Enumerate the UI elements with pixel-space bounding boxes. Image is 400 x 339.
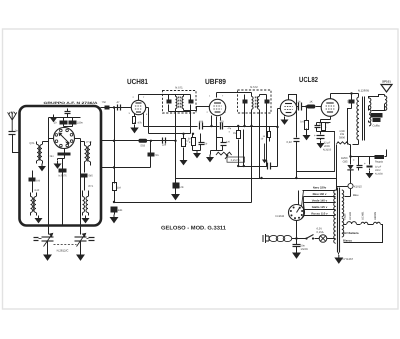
mains switch [305,235,319,240]
svg-text:57K: 57K [179,186,184,189]
label QT1 [30,142,36,145]
wire speaker bottom [369,105,385,111]
UBF89 pin numbers [207,95,227,115]
wire right column [83,166,89,216]
volume potentiometer [216,152,232,159]
wire box to UCH81 grid [101,106,132,108]
ground arrow antenna coil [39,164,45,171]
wire screen bus segs [203,123,272,128]
capacitor 404 [199,121,204,130]
padder coil left a [31,197,33,213]
tuning capacitor section 1 [34,234,54,247]
ground arrow 43K [111,215,118,223]
svg-text:C85: C85 [343,160,348,163]
svg-text:1K: 1K [309,101,312,104]
IF1 core [179,97,181,109]
wire triode grid [278,109,281,167]
osc trim coil a [83,197,85,213]
IF1 primary capacitor [167,95,172,112]
IF2 primary capacitor [243,95,248,113]
wire 104 to grid col [267,166,278,168]
wire cath net [317,123,331,135]
wire pentode plate [331,92,359,98]
wire cath bus right [297,132,335,172]
svg-text:Rosso 110 v: Rosso 110 v [311,211,328,215]
svg-text:UCL82: UCL82 [349,211,352,220]
svg-text:+: + [364,162,366,166]
label N.2812/C [57,249,69,253]
wire trimmer net [49,115,81,127]
primary taps with voltage labels [304,186,336,216]
wire mid column [58,153,65,226]
wire HV secondary out [345,196,351,198]
label N.572 [250,85,258,89]
RF unit box [20,106,102,226]
svg-text:104: 104 [264,160,269,163]
svg-text:750: 750 [102,101,107,104]
wire det gnd row [193,150,201,152]
ground arrow 2,2K [181,158,187,165]
power transformer core [338,188,340,253]
resistor 1M agc [113,183,121,203]
capacitor 5n tone [347,94,355,109]
ground arrow tuning 1 [44,252,51,260]
label G12 [35,189,40,192]
wire column x48 [48,118,50,226]
selector tap fan [302,191,305,219]
resistor 50K [188,133,196,151]
ground arrow right lower coil [83,216,89,223]
output transformer core [363,97,365,141]
svg-text:47k: 47k [138,122,143,125]
headphone jack Cuffia [371,113,383,122]
wire filament seg2 [368,224,374,226]
svg-text:100: 100 [36,180,41,183]
wire IF2 prim drop [244,113,246,127]
wiper arrow det [262,144,267,164]
svg-text:Bleu: Bleu [353,194,359,197]
antenna coil core [39,146,41,161]
wire filament return [344,225,383,243]
label N.1043 [276,215,285,218]
svg-text:1500V: 1500V [301,248,309,251]
svg-text:120: 120 [226,141,231,144]
svg-text:N.126/95: N.126/95 [358,89,370,93]
wire osc coil top [81,142,91,146]
svg-text:N.2812/C: N.2812/C [57,249,69,253]
wire selector top [298,191,300,205]
capacitor 47 grid [117,101,121,111]
label 47u 4 [228,127,232,134]
wire IF1 sec drop [190,112,192,134]
capacitor 5n af [148,140,159,168]
capacitor trimmer 10 [54,121,68,125]
resistor 503 [139,139,148,148]
svg-text:PY1: PY1 [89,185,94,188]
filter capacitor 32uF second [364,157,373,171]
triode cathode resistor 18 [263,126,279,142]
oscillator coil b [88,146,90,162]
wire OT sec tap [368,121,370,123]
svg-text:Bianco: Bianco [343,239,352,242]
oscillator coil core [87,147,89,162]
IF1 top wires [139,94,191,96]
mechanical link dashed [54,244,77,246]
wire y133 screen [146,108,191,134]
svg-text:1M: 1M [233,132,236,135]
IF2 secondary capacitor [265,95,270,113]
ground arrow tuning 2 [77,252,84,260]
UCH81 pin numbers [129,96,149,116]
svg-text:UBF89: UBF89 [205,77,226,86]
wire filament seg1 [357,224,361,226]
wire 22k corner [183,154,185,158]
tube UBF89 [209,99,225,115]
speaker voice coil [385,95,387,111]
svg-text:0,25 P.F.: 0,25 P.F. [231,159,241,162]
capacitor 24 coupling [297,101,307,111]
svg-text:UCL82: UCL82 [299,75,318,84]
svg-text:404: 404 [199,121,204,124]
UCH81 pin stubs [139,95,144,127]
wire 32uF branch [318,139,324,148]
heater UCH81 [361,211,368,224]
wire det out y165 [237,165,267,167]
label 32uF 200V N.3156 right [375,166,383,176]
ground arrow mains cap [293,250,300,258]
wire bus y177 [176,177,337,179]
heater UBF89 [374,211,381,224]
capacitor 100 [29,178,41,183]
rectifier E250 C85 [341,145,353,184]
IF2 top wires [260,94,267,96]
ground arrow 0,47 [304,133,310,140]
mains cord twisted [269,235,292,241]
wire gang left drop [48,226,50,235]
label GRUPPO A.F. N 2736/A [44,101,99,105]
resistor 1,5K 1W [337,130,351,145]
svg-text:K1015: K1015 [354,186,362,189]
resistor 47k cathode [133,114,143,125]
resistor Regola [375,150,387,160]
svg-text:UBF89: UBF89 [374,211,377,220]
tube UCH81 [131,100,145,114]
mains plug [263,234,269,243]
power transformer primary winding [334,190,336,243]
wire cap100 col [32,171,34,187]
ground arrow filter [367,171,373,178]
label Bianco [343,239,352,242]
ground arrow det 50K [194,151,200,158]
wire y167 agc [101,167,151,169]
IF transformer N.572 box [238,90,272,113]
pilot lamp 6,3V 0,15A [317,228,327,243]
antenna coil primary [37,145,39,161]
IF1 bottom wires [169,109,191,112]
wire grid agc drop [113,108,115,184]
svg-text:545: 545 [89,175,94,178]
label Grigio [344,213,347,220]
svg-text:N.1043: N.1043 [276,215,285,218]
svg-text:UCH81: UCH81 [127,77,148,86]
wire antenna coil top [37,142,49,145]
antenna [8,112,17,131]
wire long col 251 [251,110,253,203]
svg-text:0,47: 0,47 [300,121,306,124]
oscillator padder N.5075 [58,169,67,178]
capacitor 294 mid [50,153,71,159]
resistor 0,47 grid leak [300,107,309,133]
resistor 1M avc [233,127,240,167]
capacitor 50n 1500V [293,239,309,251]
IF2 core [255,97,257,109]
wire IF2 sec drop [259,110,261,179]
svg-text:Cuffia: Cuffia [373,125,380,128]
label UCH81 [127,77,148,86]
svg-text:UCH81: UCH81 [362,211,365,220]
wire OT primary bottom [353,141,359,145]
svg-text:N.3155: N.3155 [323,148,332,151]
output transformer secondary b [369,115,371,126]
svg-text:+: + [353,158,355,162]
wire screen bus UBF89 [141,126,143,128]
trimmer ground arrow [51,115,57,122]
wire column x80 [80,139,82,226]
ground arrow 57K [172,192,179,200]
label 32uF 200V N.3155 [323,142,332,152]
capacitor osc top [65,109,71,118]
wire filter node [351,156,375,158]
resistor 220K cathode [322,122,330,132]
svg-text:1M: 1M [117,187,121,190]
wire bus y201 [113,201,252,203]
IF1 secondary coil [182,95,184,109]
wire 022 column [296,107,298,138]
svg-text:QT1: QT1 [30,142,36,145]
wire y140 bus [101,140,176,142]
ground arrow mid box [55,159,61,169]
label SP101 [382,80,391,84]
capacitor 750 [102,101,110,110]
svg-text:0,22: 0,22 [287,141,293,144]
capacitor trimmer 220n [69,121,84,125]
capacitor 32uF N.3155 [314,134,325,139]
svg-text:SP101: SP101 [382,80,391,84]
power transformer filament winding [342,218,344,237]
wire tc2 ground [80,241,82,253]
label UBF89 [205,77,226,86]
label 36V Batteria [343,232,359,235]
svg-text:0,15A: 0,15A [317,231,324,234]
UBF89 pin stubs [212,93,221,127]
wire pentode cathode [321,117,331,123]
wire antenna to box [13,135,20,153]
ground arrow UCH81 cathode [131,125,138,133]
wire 5n to B+ [348,109,352,145]
capacitor 545 [81,174,94,178]
IF2 primary coil [252,93,254,110]
svg-text:+: + [314,134,316,138]
label N.Y1367 [343,258,354,261]
svg-text:N.571: N.571 [175,86,183,90]
label PY2 [87,141,92,144]
ground arrow triode cathode [282,115,288,125]
IF2 secondary coil [258,95,260,110]
capacitor 0,22 [287,139,300,179]
wire gang right drop [80,226,82,235]
svg-text:PY2: PY2 [87,141,92,144]
capacitor 43K [111,207,123,215]
label PY1 [89,185,94,188]
svg-text:5900: 5900 [339,136,345,139]
wire UCH81 cath stub [134,113,136,115]
tube UCL82 pentode [321,99,339,117]
wire IF1 sec to UBF89 grid [184,107,210,111]
wire selector bottom [295,221,297,240]
resistor 1K stopper [305,101,321,109]
wire UBF89 anode to IF2 [217,92,252,94]
wire pentode grid [321,106,323,108]
svg-text:Verde 140 v: Verde 140 v [312,199,328,203]
speaker cone [381,85,392,93]
wire avc col2 [243,130,245,167]
capacitor 120 [221,138,231,151]
capacitor 224 [162,138,167,147]
svg-text:Nero 220v: Nero 220v [313,186,327,190]
svg-text:224: 224 [162,144,167,147]
svg-text:GELOSO - MOD. G.3311: GELOSO - MOD. G.3311 [161,226,226,232]
capacitor 2n antenna [9,129,19,134]
antenna coil secondary [40,145,42,161]
voltage selector N.1043 [289,205,305,221]
tube UCL82 triode [280,100,296,116]
ground arrow vol [207,151,217,162]
wire UBF89 det col [217,127,223,138]
wire B+ drop x336 [336,145,338,191]
wire IF1 prim drop [174,112,176,179]
wire pin8 bus [144,126,198,128]
resistor 2,2K [182,133,190,154]
wire osc coil bottom [85,162,91,166]
label Cuffia [373,125,380,128]
capacitor 110 [219,121,224,130]
power transformer HV secondary [342,190,344,217]
wire agc 1M column [114,168,116,184]
output transformer secondary a [369,98,371,113]
filter capacitor first [353,157,363,171]
wire filament start [344,224,347,226]
IF1 primary coil [176,95,178,109]
resistor 57K det load [173,179,184,192]
tuning capacitor section 2 [75,234,95,247]
title GELOSO MOD G.3311 [161,226,226,232]
wire speaker top [369,95,385,99]
svg-text:N.3156: N.3156 [375,172,383,175]
rotary band switch [54,128,75,149]
label UCL82 [299,75,318,84]
wire UCH81 anode to IF1 [139,94,169,96]
switch pin wires [49,139,81,153]
IF1 secondary capacitor [189,95,194,112]
IF transformer N.571 box [163,91,197,114]
heater UCL82 [347,211,357,224]
svg-text:220n: 220n [77,122,83,125]
label Regola [375,161,384,164]
wire cord to switch [292,238,306,240]
svg-text:N.572: N.572 [250,85,258,89]
oscillator coil a [85,146,87,162]
wire antenna coil bottom [37,161,43,164]
ground arrow left lower coil [36,216,42,223]
osc trim coil b [86,197,88,213]
wire IF2 right cap drop [266,113,268,167]
wire det node2 [217,138,223,151]
svg-text:5n: 5n [156,154,159,157]
svg-text:43K: 43K [118,209,123,212]
output transformer primary [357,97,359,140]
wire triode plate [289,95,297,107]
wire transformer bottom [338,253,340,255]
label Bleu secondary [353,194,359,197]
svg-text:GRUPPO A.F. N 2736/A: GRUPPO A.F. N 2736/A [44,101,99,105]
padder coil left b [34,197,36,213]
switch K1015 [337,183,363,196]
svg-text:G12: G12 [35,189,40,192]
padder coil left core [33,198,35,212]
svg-text:5n: 5n [347,100,350,103]
svg-text:Regola: Regola [375,161,384,164]
svg-text:503: 503 [141,145,146,148]
svg-text:110: 110 [219,121,224,124]
svg-text:36V Batteria: 36V Batteria [343,232,359,235]
ground arrow transformer [335,255,342,263]
wire left coil col [31,187,37,216]
capacitor 104 coupling [264,160,271,170]
svg-text:Bleu 160 v: Bleu 160 v [313,192,327,196]
label N.571 [175,86,183,90]
label N.126/95 [358,89,370,93]
label 10 wiper [261,138,264,141]
label 0,25 P.F. [227,157,245,162]
svg-text:Grigio: Grigio [344,213,347,220]
svg-text:Giallo 125 v: Giallo 125 v [312,205,328,209]
wire tc1 ground [47,241,49,253]
wire primary top [303,190,336,192]
capacitor 50 det [199,134,208,151]
wire lamp to transformer [327,238,336,240]
svg-text:N.Y1367: N.Y1367 [343,258,354,261]
capacitor 50 cathode [315,123,323,132]
